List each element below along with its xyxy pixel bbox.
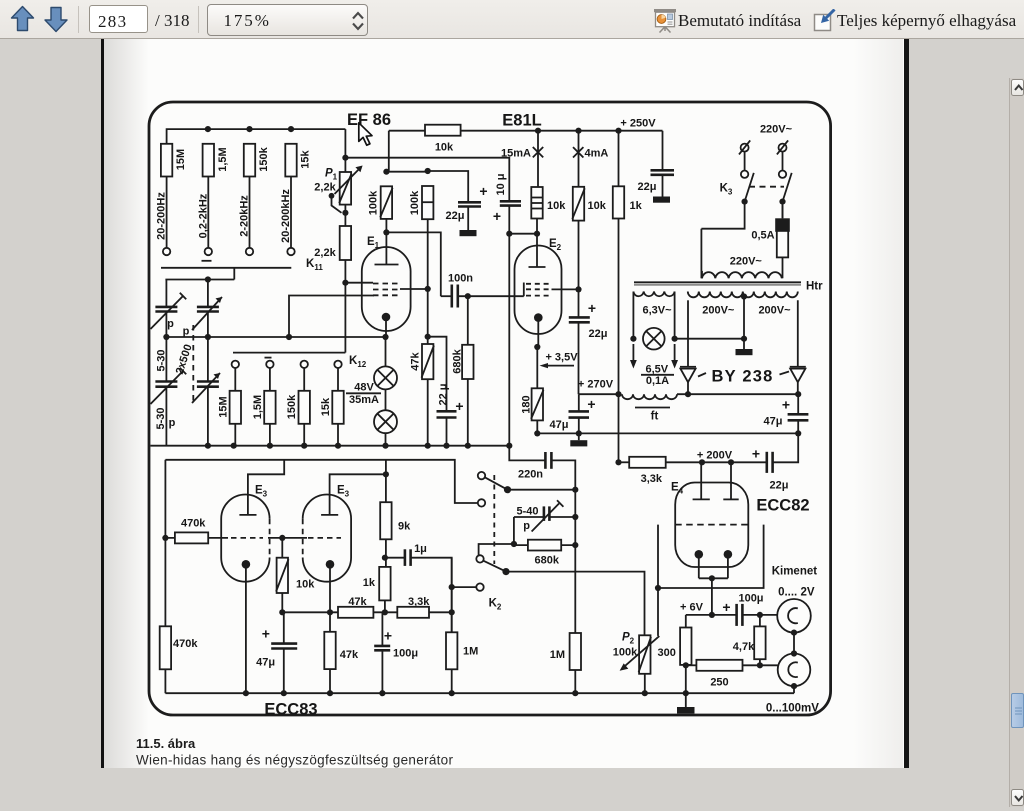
contact K11 0,2-2kHz bbox=[205, 248, 212, 255]
svg-text:2,2k: 2,2k bbox=[314, 247, 336, 259]
toolbar down arrow bbox=[45, 8, 67, 32]
svg-text:15k: 15k bbox=[320, 397, 332, 416]
mains plug pins bbox=[741, 144, 749, 152]
svg-text:+: + bbox=[588, 300, 596, 316]
capacitor 47µ bbox=[569, 410, 590, 413]
E1 grid bbox=[373, 283, 401, 285]
svg-text:p: p bbox=[183, 326, 190, 338]
wire to E1 grid bbox=[289, 296, 374, 338]
wire 1k branch bbox=[618, 131, 620, 187]
svg-text:4mA: 4mA bbox=[585, 148, 609, 160]
wire bbox=[701, 202, 744, 229]
contact K2 (upper 2) bbox=[478, 499, 485, 506]
svg-text:2x500: 2x500 bbox=[174, 343, 195, 376]
capacitor 47µ (cathode) bbox=[271, 642, 297, 645]
wire bbox=[427, 379, 429, 446]
potentiometer 10k (E81L) bbox=[573, 187, 584, 221]
E2 cathode bbox=[534, 313, 543, 322]
wire bbox=[578, 322, 580, 394]
svg-text:0.... 2V: 0.... 2V bbox=[778, 587, 815, 599]
fuse 0,5A bbox=[777, 222, 788, 258]
contact K2 (lower 3) bbox=[476, 555, 483, 562]
svg-text:150k: 150k bbox=[286, 394, 298, 419]
arrow bbox=[674, 344, 676, 362]
triode E1 (EF86) envelope bbox=[362, 247, 411, 331]
wire EF86 input column bbox=[344, 129, 346, 172]
resistor 47k (horizontal) bbox=[282, 611, 338, 613]
wire (E2 bypass column) bbox=[508, 234, 510, 446]
wire bbox=[657, 588, 659, 636]
wire bbox=[373, 611, 397, 613]
wire bbox=[508, 206, 510, 234]
E3a plate bbox=[239, 514, 256, 516]
svg-text:+ 250V: + 250V bbox=[620, 118, 656, 130]
svg-text:ft: ft bbox=[651, 411, 659, 423]
wire bbox=[742, 614, 777, 616]
wire bbox=[245, 564, 247, 693]
svg-text:E4: E4 bbox=[671, 482, 684, 496]
potentiometer P1 2,2k bbox=[340, 172, 351, 205]
potentiometer 10k (gain) bbox=[281, 538, 283, 558]
contact K11 20-200Hz bbox=[163, 248, 170, 255]
svg-text:220n: 220n bbox=[518, 469, 543, 481]
E3a grid bbox=[231, 537, 263, 539]
resistor 250 bbox=[696, 660, 742, 671]
output jack 0-2V bbox=[777, 599, 811, 633]
wire bbox=[700, 229, 702, 279]
resistor 15M (range bank K11) bbox=[161, 144, 172, 177]
wire bbox=[165, 537, 228, 539]
potentiometer 180 (hum balance) bbox=[532, 388, 543, 420]
wire bbox=[782, 205, 784, 278]
triode E3a (ECC83) envelope bbox=[221, 495, 269, 582]
shield box bbox=[658, 525, 764, 588]
resistor 150k (range bank K11) bbox=[244, 144, 255, 177]
svg-text:47k: 47k bbox=[348, 596, 367, 608]
E3b grid bbox=[308, 537, 341, 539]
switch K11 wiper bar bbox=[161, 267, 291, 269]
wire bbox=[344, 205, 346, 226]
wire bbox=[536, 420, 538, 433]
E3b plate bbox=[321, 514, 338, 516]
svg-text:+: + bbox=[384, 628, 392, 644]
svg-text:ECC82: ECC82 bbox=[756, 497, 809, 515]
resistor 9k bbox=[380, 502, 391, 539]
wire bbox=[574, 670, 576, 693]
wire bbox=[385, 433, 387, 446]
wire bbox=[269, 368, 271, 391]
variable capacitor 5-40p bbox=[514, 516, 543, 518]
wire bbox=[329, 564, 331, 632]
svg-text:6,5V: 6,5V bbox=[645, 364, 668, 376]
wire bbox=[536, 347, 538, 388]
resistor 47k (cathode) bbox=[324, 632, 335, 669]
lamp 6,5V 0,1A bbox=[643, 328, 665, 350]
contact K11 2-20kHz bbox=[246, 248, 253, 255]
contact K12 bbox=[266, 361, 273, 368]
svg-text:0,2-2kHz: 0,2-2kHz bbox=[197, 193, 209, 238]
ground bbox=[685, 693, 687, 707]
capacitor 100n bbox=[450, 285, 453, 308]
resistor 150k (feedback bank K12) bbox=[299, 391, 310, 424]
wire bbox=[385, 389, 387, 410]
wire bbox=[711, 578, 713, 615]
wire bank1 bus bbox=[167, 129, 346, 144]
svg-text:K3: K3 bbox=[720, 183, 733, 197]
svg-text:48V: 48V bbox=[354, 382, 374, 394]
potentiometer 10k (feedback) bbox=[277, 558, 288, 593]
svg-text:K12: K12 bbox=[349, 355, 367, 369]
svg-text:1μ: 1μ bbox=[414, 543, 427, 555]
E2 plate bbox=[529, 266, 546, 268]
svg-text:47k: 47k bbox=[410, 351, 422, 370]
wire anode bbox=[248, 460, 284, 515]
wire cathode bar bbox=[699, 554, 728, 578]
svg-text:0,5A: 0,5A bbox=[751, 230, 774, 242]
svg-text:+: + bbox=[455, 398, 463, 414]
wire grid left bbox=[345, 282, 373, 284]
P1 wiper arrow bbox=[335, 168, 361, 194]
svg-text:+: + bbox=[752, 445, 760, 461]
wire cap column B bbox=[207, 280, 209, 446]
wire bbox=[427, 289, 429, 344]
svg-text:+: + bbox=[587, 396, 595, 412]
capacitor 1µ bbox=[385, 557, 405, 559]
wire bbox=[743, 664, 778, 666]
wire bbox=[666, 461, 767, 463]
svg-text:E1: E1 bbox=[367, 236, 380, 250]
svg-text:EF 86: EF 86 bbox=[347, 111, 391, 129]
wire bbox=[685, 665, 687, 693]
capacitor 22µ (screen bypass) bbox=[458, 201, 481, 204]
variable capacitor 5-30p (lower left) bbox=[155, 380, 177, 383]
wire bbox=[427, 219, 429, 289]
potentiometer 100k (E1 screen) bbox=[381, 186, 392, 219]
svg-text:20-200kHz: 20-200kHz bbox=[280, 189, 292, 243]
ground bbox=[460, 230, 477, 236]
wire bbox=[730, 462, 732, 499]
svg-text:10k: 10k bbox=[588, 200, 607, 212]
E2 grid bbox=[526, 283, 552, 285]
svg-text:22μ: 22μ bbox=[589, 328, 608, 340]
capacitor 22µ (coupling) bbox=[765, 452, 768, 473]
svg-text:150k: 150k bbox=[258, 146, 270, 171]
svg-text:+: + bbox=[722, 599, 730, 615]
capacitor 22µ (cathode) bbox=[437, 410, 457, 413]
resistor 1,5M (range bank K11) bbox=[203, 144, 214, 177]
resistor 15M (feedback bank K12) bbox=[230, 391, 241, 424]
diode BY238 (left) bbox=[687, 300, 689, 367]
wire bbox=[700, 462, 702, 499]
primary winding 220V~ bbox=[702, 272, 782, 278]
resistor 470k (input) bbox=[160, 626, 171, 669]
svg-text:p: p bbox=[169, 417, 176, 429]
svg-text:9k: 9k bbox=[398, 521, 411, 533]
arrow bbox=[543, 365, 574, 367]
wire center tap bbox=[743, 297, 745, 350]
wire bbox=[249, 177, 251, 248]
svg-text:10k: 10k bbox=[547, 200, 566, 212]
capacitor 47µ (right) bbox=[788, 413, 809, 416]
wire bbox=[452, 586, 477, 588]
wire left rail bbox=[164, 460, 166, 693]
svg-text:4,7k: 4,7k bbox=[733, 641, 755, 653]
wire bbox=[782, 202, 784, 219]
wire bottom bus bbox=[165, 692, 794, 694]
svg-text:1M: 1M bbox=[463, 646, 478, 658]
wire bbox=[281, 593, 283, 612]
potentiometer 47k bbox=[422, 344, 433, 379]
wire bbox=[677, 393, 798, 395]
toolbar up arrow bbox=[12, 7, 34, 31]
E3b cathode bbox=[326, 560, 335, 569]
wire bbox=[344, 260, 346, 353]
wire bbox=[268, 537, 307, 539]
svg-text:p: p bbox=[167, 318, 174, 330]
svg-text:47μ: 47μ bbox=[256, 657, 275, 669]
triode E2 (E81L) envelope bbox=[515, 245, 562, 334]
resistor 1k bbox=[613, 186, 624, 218]
resistor 3,3k bbox=[629, 457, 666, 468]
wire bbox=[509, 446, 545, 461]
wire bbox=[675, 338, 744, 340]
wire bbox=[509, 233, 537, 235]
svg-text:15M: 15M bbox=[175, 149, 187, 170]
resistor 680k bbox=[462, 345, 473, 379]
wire bbox=[329, 669, 331, 693]
svg-text:3,3k: 3,3k bbox=[641, 473, 663, 485]
wire bbox=[536, 219, 538, 268]
resistor 100k (tapped) bbox=[422, 186, 433, 219]
wire 15mA branch bbox=[537, 131, 539, 187]
wire bbox=[644, 674, 646, 693]
resistor 1M (grid leak) bbox=[446, 632, 457, 669]
svg-text:200V~: 200V~ bbox=[758, 305, 791, 317]
ground bbox=[736, 349, 753, 355]
svg-text:+ 200V: + 200V bbox=[697, 449, 733, 461]
resistor 10k (EF86 anode) bbox=[425, 125, 461, 136]
svg-text:P1: P1 bbox=[325, 168, 338, 182]
wire bbox=[337, 368, 339, 391]
wire return line bbox=[537, 432, 798, 434]
svg-text:680k: 680k bbox=[535, 555, 560, 567]
svg-text:E2: E2 bbox=[549, 238, 562, 252]
wire divider line bbox=[686, 664, 697, 666]
wire +200V rail bbox=[619, 461, 630, 463]
svg-text:1k: 1k bbox=[630, 200, 643, 212]
svg-text:100n: 100n bbox=[448, 273, 473, 285]
resistor 470k (grid) bbox=[175, 532, 208, 543]
wire bbox=[303, 368, 305, 391]
svg-text:1k: 1k bbox=[363, 577, 376, 589]
svg-text:10k: 10k bbox=[296, 579, 315, 591]
potentiometer P2 100k bbox=[639, 635, 650, 674]
wire bbox=[551, 460, 575, 633]
gang link 2x500p bbox=[192, 325, 194, 401]
wire plate stem bbox=[385, 232, 387, 264]
svg-text:180: 180 bbox=[521, 395, 533, 413]
resistor 4,7k bbox=[759, 615, 761, 627]
twin triode E4 (ECC82) envelope bbox=[675, 483, 748, 568]
svg-text:300: 300 bbox=[658, 647, 676, 659]
wire bbox=[467, 379, 469, 446]
wire bbox=[513, 517, 515, 544]
svg-text:47μ: 47μ bbox=[764, 416, 783, 428]
wire anode supply to K2 bbox=[165, 460, 478, 503]
test point 15mA bbox=[533, 147, 543, 157]
wire contact3 feed bbox=[479, 544, 514, 555]
svg-text:200V~: 200V~ bbox=[702, 305, 735, 317]
svg-text:1M: 1M bbox=[550, 649, 565, 661]
svg-text:47μ: 47μ bbox=[550, 419, 569, 431]
wire 100n node bbox=[386, 232, 440, 296]
wire bbox=[384, 600, 386, 612]
wire bbox=[269, 424, 271, 446]
E1 plate bbox=[375, 264, 399, 266]
wire EF86 anode drop bbox=[388, 131, 390, 172]
svg-text:10k: 10k bbox=[435, 142, 454, 154]
svg-text:+ 270V: + 270V bbox=[578, 379, 614, 391]
svg-text:5-40: 5-40 bbox=[516, 506, 538, 518]
wire bbox=[578, 221, 580, 318]
switch K12 wiper bar bbox=[233, 352, 345, 354]
svg-text:220V~: 220V~ bbox=[760, 124, 793, 136]
wire bbox=[234, 368, 236, 391]
svg-text:11.5. ábra: 11.5. ábra bbox=[136, 736, 196, 751]
lamp 48V 35mA (upper) bbox=[374, 366, 397, 389]
variable capacitor 5-30p (upper left) bbox=[155, 306, 177, 309]
wire bbox=[386, 171, 427, 173]
svg-text:ECC83: ECC83 bbox=[264, 701, 317, 719]
wire left rail bbox=[165, 280, 167, 446]
svg-text:2,2k: 2,2k bbox=[314, 182, 336, 194]
E1 cathode bbox=[382, 313, 391, 322]
wire anode rail bbox=[389, 130, 425, 132]
svg-text:Kimenet: Kimenet bbox=[772, 566, 818, 578]
svg-text:K2: K2 bbox=[489, 598, 502, 612]
resistor 47k (mixer) bbox=[338, 607, 373, 618]
contact K12 bbox=[334, 361, 341, 368]
wire bbox=[290, 177, 292, 248]
capacitor 100µ (output) bbox=[735, 604, 738, 626]
wire coupling line bbox=[345, 158, 509, 202]
mouse cursor bbox=[359, 123, 372, 145]
wire bbox=[429, 611, 452, 613]
svg-text:47k: 47k bbox=[340, 649, 359, 661]
contact K11 20-200kHz bbox=[287, 248, 294, 255]
transformer core bbox=[634, 281, 801, 283]
svg-text:470k: 470k bbox=[181, 518, 206, 530]
wire bbox=[428, 337, 447, 412]
svg-text:1,5M: 1,5M bbox=[252, 395, 264, 419]
wire bbox=[467, 296, 469, 345]
svg-text:E3: E3 bbox=[337, 485, 350, 499]
variable capacitor 5-30p (upper right gang) bbox=[197, 306, 219, 309]
wire bbox=[303, 424, 305, 446]
svg-text:E81L: E81L bbox=[502, 112, 541, 130]
schematic border frame bbox=[149, 102, 831, 715]
switch K3 (right pole) bbox=[782, 152, 784, 171]
diode BY238 (right) bbox=[797, 300, 799, 367]
svg-text:E3: E3 bbox=[255, 485, 268, 499]
wire bbox=[793, 633, 795, 654]
wire 4mA branch bbox=[578, 131, 580, 187]
capacitor 10µ bbox=[500, 200, 521, 203]
contact tick bbox=[202, 260, 212, 262]
wire bbox=[508, 489, 576, 491]
capacitor 22µ (+250V filter) bbox=[651, 169, 675, 172]
svg-text:22μ: 22μ bbox=[638, 181, 657, 193]
svg-text:470k: 470k bbox=[173, 638, 198, 650]
inductor ft bbox=[622, 394, 677, 399]
svg-text:3,3k: 3,3k bbox=[408, 596, 430, 608]
switch K2 blade (upper) bbox=[485, 477, 508, 489]
svg-text:15M: 15M bbox=[217, 396, 229, 417]
resistor 4,7k bbox=[754, 626, 765, 659]
resistor 300 bbox=[680, 628, 691, 665]
resistor 3,3k (mixer) bbox=[397, 607, 429, 618]
svg-text:22μ: 22μ bbox=[770, 480, 789, 492]
resistor 15k (feedback bank K12) bbox=[332, 391, 343, 424]
svg-text:+: + bbox=[262, 626, 270, 642]
lamp 48V 35mA (lower) bbox=[374, 410, 397, 433]
svg-text:2-20kHz: 2-20kHz bbox=[239, 195, 251, 237]
svg-text:22 μ: 22 μ bbox=[438, 383, 450, 405]
P2 wiper arrow bbox=[624, 636, 659, 667]
svg-text:20-200Hz: 20-200Hz bbox=[156, 192, 168, 240]
wire grid right bbox=[552, 288, 579, 290]
E4 cathodes bbox=[695, 550, 704, 559]
svg-text:Wien-hidas hang és négyszögfes: Wien-hidas hang és négyszögfeszültség ge… bbox=[136, 753, 453, 768]
E4 plates bbox=[693, 498, 710, 500]
svg-text:15mA: 15mA bbox=[501, 148, 531, 160]
svg-text:10 μ: 10 μ bbox=[495, 173, 507, 195]
wire cathode bbox=[385, 317, 387, 337]
resistor 680k (fine tune) bbox=[528, 540, 561, 551]
ground bbox=[653, 197, 670, 203]
ground bbox=[578, 433, 580, 440]
svg-text:680k: 680k bbox=[452, 348, 464, 373]
svg-text:250: 250 bbox=[710, 677, 728, 689]
K2 gang link bbox=[493, 475, 495, 564]
wire anode bbox=[330, 460, 386, 515]
svg-text:0...100mV: 0...100mV bbox=[766, 703, 819, 715]
svg-text:100k: 100k bbox=[409, 190, 421, 215]
wire bbox=[537, 318, 539, 347]
svg-text:220V~: 220V~ bbox=[730, 256, 763, 268]
E3a cathode bbox=[242, 560, 251, 569]
E4 grid (dashed) bbox=[675, 524, 748, 526]
wire bbox=[234, 424, 236, 446]
svg-text:BY 238: BY 238 bbox=[712, 368, 774, 386]
resistor 15k (range bank K11) bbox=[285, 144, 296, 177]
svg-text:1,5M: 1,5M bbox=[217, 147, 229, 171]
contact K12 bbox=[232, 361, 239, 368]
wire to 22µ bbox=[428, 171, 469, 202]
svg-text:+: + bbox=[479, 183, 487, 199]
capacitor 22µ (E2 anode bypass) bbox=[569, 316, 590, 319]
wire bbox=[385, 337, 387, 366]
svg-text:+ 3,5V: + 3,5V bbox=[545, 352, 578, 364]
svg-text:+ 6V: + 6V bbox=[680, 602, 704, 614]
output jack 0-100mV bbox=[778, 654, 811, 687]
wire bbox=[411, 558, 452, 633]
heater winding 6,3V~ bbox=[633, 292, 674, 297]
contact K2 (lower 4) bbox=[476, 583, 483, 590]
resistor 2,2k bbox=[340, 226, 351, 260]
resistor 1,5M (feedback bank K12) bbox=[264, 391, 275, 424]
wire screen right bbox=[400, 288, 428, 290]
